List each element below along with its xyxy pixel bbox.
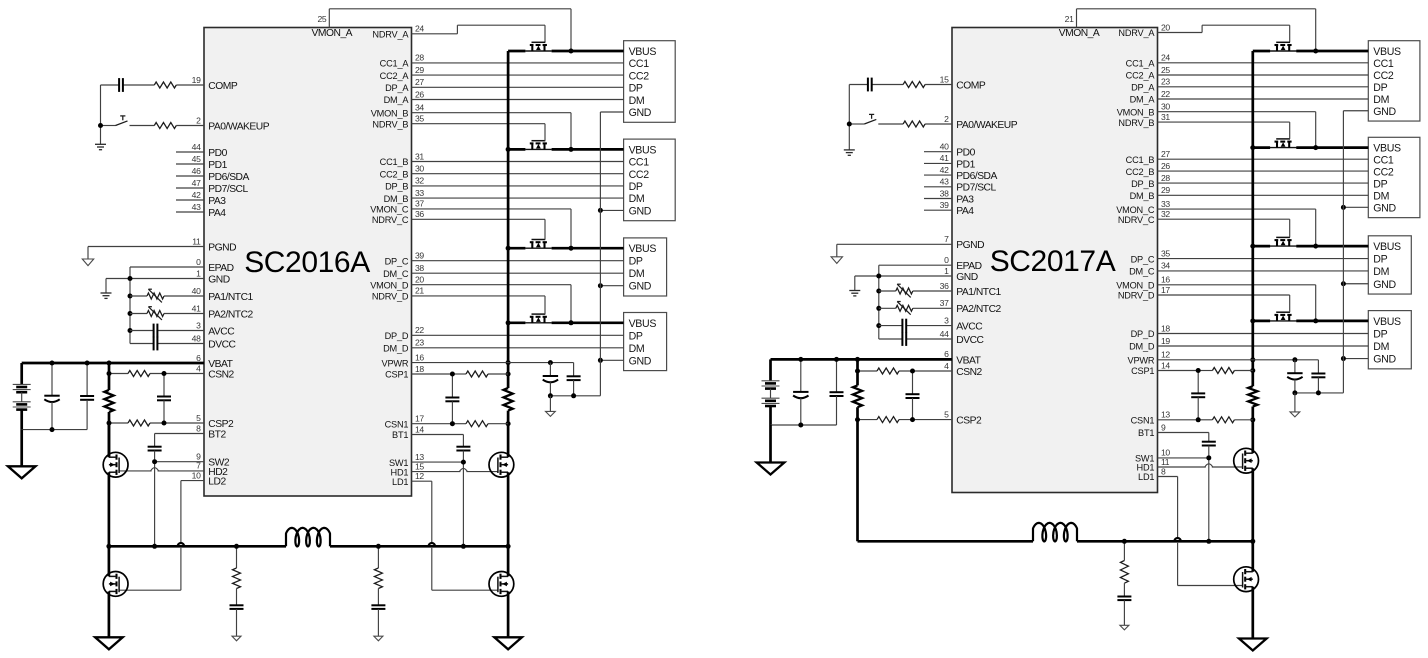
wire BT1 bootstrap net [1158, 433, 1209, 442]
wire VMON_D net [1158, 285, 1316, 321]
svg-text:DM_A: DM_A [384, 95, 410, 105]
svg-text:SC2016A: SC2016A [244, 246, 370, 279]
wire CSP2 filter net [109, 422, 204, 424]
svg-text:2: 2 [196, 115, 201, 125]
wire SW1 switch node [1158, 446, 1209, 542]
svg-text:DP_A: DP_A [385, 83, 409, 93]
svg-text:43: 43 [192, 202, 201, 212]
resistor R_comp [154, 82, 176, 88]
U2 pin 42 (PD6/SDA) [940, 165, 949, 175]
svg-text:23: 23 [415, 338, 424, 348]
capacitor C_cs2 [157, 374, 171, 424]
wire DP_D net [1158, 333, 1369, 335]
wire hop HD2 over SW2 [151, 468, 159, 471]
U2 pin 37 (PA2/NTC2) [940, 298, 949, 308]
U1 pin 1 (GND) [196, 268, 201, 278]
resistor R_csn2 [877, 368, 899, 374]
U2 pin 7 (PGND) [944, 234, 949, 244]
wire pin stub PD7/SCL [176, 187, 204, 189]
wire VMON_C net [412, 209, 572, 248]
svg-text:DM_B: DM_B [384, 194, 409, 204]
U2 pin 38 (PA3) [940, 188, 949, 198]
U1 pin 13 (SW1) [415, 452, 424, 462]
U2 pin 23 (DP_A) [1161, 77, 1170, 87]
svg-text:DM_D: DM_D [383, 344, 409, 354]
svg-text:CC2: CC2 [629, 70, 650, 82]
wire CSN2 filter net [858, 370, 953, 372]
capacitor C_dvcc [154, 337, 204, 351]
wire VMON_B net [412, 113, 572, 150]
svg-text:CSN2: CSN2 [956, 367, 982, 378]
svg-text:18: 18 [1161, 323, 1170, 333]
op-amp controller IC U1 SC2016A [204, 28, 412, 497]
capacitor C_snub1 [1117, 583, 1131, 625]
svg-text:BT1: BT1 [392, 430, 408, 440]
node junction GND bus port D [598, 358, 603, 363]
U1 pin 3 (AVCC) [196, 320, 201, 330]
capacitor C_bt2 [148, 447, 162, 451]
svg-text:DVCC: DVCC [956, 335, 984, 346]
U1 pin 29 (CC2_A) [415, 65, 424, 75]
svg-text:31: 31 [1161, 112, 1170, 122]
svg-text:VMON_D: VMON_D [370, 280, 409, 290]
wire BT1 bootstrap net [412, 435, 464, 447]
svg-text:35: 35 [415, 114, 424, 124]
svg-text:47: 47 [192, 178, 201, 188]
ground arrow symbol (snubber 1) [1120, 625, 1129, 630]
wire DP_A net [412, 86, 624, 88]
svg-text:DM: DM [629, 268, 645, 280]
svg-text:PGND: PGND [956, 240, 984, 251]
svg-text:CSN2: CSN2 [208, 369, 234, 380]
thermistor RT1 [130, 289, 204, 302]
U2 pin 13 (CSN1) [1161, 410, 1170, 420]
U2 pin 9 (BT1) [1161, 422, 1166, 432]
svg-text:20: 20 [415, 275, 424, 285]
svg-text:PA4: PA4 [208, 208, 226, 219]
svg-text:CC1_B: CC1_B [380, 157, 409, 167]
transistor Q_C (VBUS switch C) [1270, 237, 1297, 246]
svg-text:VBUS: VBUS [1373, 241, 1401, 253]
svg-text:CC2: CC2 [629, 169, 650, 181]
capacitor C_bat2 [830, 359, 844, 425]
svg-text:26: 26 [415, 89, 424, 99]
svg-text:PA2/NTC2: PA2/NTC2 [956, 304, 1001, 315]
svg-text:CSP2: CSP2 [956, 416, 982, 427]
svg-text:25: 25 [1161, 65, 1170, 75]
svg-text:VMON_B: VMON_B [371, 108, 409, 118]
node junction VMON_C on rail [569, 246, 574, 251]
wire DM_C net [412, 272, 624, 274]
svg-text:12: 12 [1161, 350, 1170, 360]
svg-text:GND: GND [1373, 354, 1396, 366]
svg-text:4: 4 [944, 361, 949, 371]
svg-text:CC2: CC2 [1373, 167, 1394, 179]
wire battery negative to ground [771, 406, 837, 463]
connector J_U1_C (USB port C) [624, 238, 667, 296]
wire pin stub PD1 [924, 162, 952, 164]
svg-text:DM_D: DM_D [1129, 342, 1155, 352]
U2 pin 5 (CSP2) [944, 409, 949, 419]
capacitor C_avcc [879, 319, 952, 333]
svg-text:16: 16 [1161, 275, 1170, 285]
svg-text:VMON_C: VMON_C [1116, 205, 1155, 215]
svg-text:42: 42 [192, 190, 201, 200]
svg-text:DM: DM [629, 343, 645, 355]
svg-text:6: 6 [944, 349, 949, 359]
svg-text:30: 30 [415, 164, 424, 174]
wire DP_B net [412, 185, 624, 187]
wire CC2_A net [1158, 74, 1369, 76]
capacitor C_avcc [130, 324, 204, 338]
svg-text:PA3: PA3 [956, 194, 974, 205]
node junction VMON_B on rail [569, 147, 574, 152]
svg-text:10: 10 [192, 470, 201, 480]
U2 pin 11 (HD1) [1161, 457, 1170, 467]
wire VBUS rail port B (thick) [508, 148, 623, 151]
wire pin stub PA4 [924, 209, 952, 211]
node junction VMON_C on rail [1313, 244, 1318, 249]
capacitor C_out1 (polarized) [543, 363, 558, 396]
svg-text:DM_C: DM_C [383, 269, 409, 279]
wire PA0/WAKEUP net [101, 126, 205, 145]
svg-text:28: 28 [415, 53, 424, 63]
node junction GND bus port B [598, 208, 603, 213]
wire VBAT net (thick) [22, 363, 204, 384]
svg-text:DP_B: DP_B [1131, 179, 1154, 189]
wire COMP net [849, 85, 952, 125]
U1 pin 23 (DM_D) [415, 338, 424, 348]
ground arrow symbol (output caps) [546, 411, 556, 416]
svg-text:GND: GND [629, 281, 652, 293]
ground arrow symbol (PGND) [831, 257, 842, 264]
svg-text:VMON_A: VMON_A [312, 28, 353, 39]
svg-text:HD1: HD1 [1137, 463, 1155, 473]
wire CSP2 filter net [858, 419, 953, 421]
svg-text:DP: DP [629, 83, 643, 95]
svg-text:26: 26 [1161, 161, 1170, 171]
svg-text:41: 41 [940, 153, 949, 163]
svg-text:39: 39 [415, 251, 424, 261]
wire GND port C [600, 285, 623, 287]
battery BT [13, 384, 31, 409]
U2 pin 30 (VMON_B) [1161, 102, 1170, 112]
U1 pin 16 (VPWR) [415, 352, 424, 362]
svg-text:3: 3 [196, 320, 201, 330]
transistor Q_D (VBUS switch D) [525, 314, 552, 323]
node junction GND bus port D [1341, 356, 1346, 361]
svg-text:22: 22 [415, 325, 424, 335]
svg-text:41: 41 [192, 303, 201, 313]
svg-text:CSP2: CSP2 [208, 419, 234, 430]
svg-text:COMP: COMP [956, 80, 986, 91]
svg-text:NDRV_B: NDRV_B [372, 119, 408, 129]
svg-text:CC1: CC1 [629, 157, 650, 169]
wire main VBUS vertical (thick) [1251, 51, 1254, 453]
resistor R_sense2 (power) [104, 390, 113, 412]
U2 pin 44 (DVCC) [940, 329, 949, 339]
wire pin stub PD7/SCL [924, 186, 952, 188]
wire LD2 gate drive [119, 481, 204, 591]
wire EPAD/GND/AVCC/DVCC common net [855, 265, 952, 339]
wire CSN2 filter net [109, 373, 204, 375]
wire VBUS rail port C (thick) [1253, 245, 1369, 248]
svg-text:PD6/SDA: PD6/SDA [956, 171, 997, 182]
svg-text:1: 1 [944, 266, 949, 276]
wire output cap ground stem [549, 396, 551, 412]
wire DP_C net [412, 260, 624, 262]
U1 pin 45 (PD1) [192, 154, 201, 164]
wire hop LD2 over switch rail [178, 543, 185, 546]
svg-text:46: 46 [192, 166, 201, 176]
wire DM_C net [1158, 270, 1369, 272]
U2 pin 20 (NDRV_A) [1161, 22, 1170, 32]
svg-text:LD1: LD1 [1138, 472, 1154, 482]
svg-text:NDRV_C: NDRV_C [1118, 215, 1155, 225]
U2 pin 41 (PD1) [940, 153, 949, 163]
svg-text:PA0/WAKEUP: PA0/WAKEUP [208, 121, 269, 132]
svg-text:VBAT: VBAT [208, 359, 233, 370]
U2 pin 3 (AVCC) [944, 315, 949, 325]
U2 pin 15 (COMP) [940, 74, 949, 84]
capacitor C_bat2 [80, 363, 94, 430]
svg-text:17: 17 [1161, 285, 1170, 295]
svg-text:PA1/NTC1: PA1/NTC1 [956, 287, 1001, 298]
U1 pin 33 (DM_B) [415, 188, 424, 198]
wire VMON_B net [1158, 112, 1316, 148]
node junctions SW2 [152, 459, 157, 549]
svg-text:17: 17 [415, 414, 424, 424]
svg-text:VBUS: VBUS [1373, 143, 1401, 155]
resistor R_wakeup [903, 121, 925, 127]
U2 pin 21 (VMON_A) [1065, 14, 1074, 24]
ground earth symbol (GND pin) [849, 291, 860, 296]
wire LD1 gate drive [412, 481, 498, 590]
wire GND port D [1343, 358, 1368, 360]
wire switch node to rail (thick) [1251, 468, 1254, 572]
node junction PA0 / ground [847, 122, 852, 127]
U2 pin 31 (NDRV_B) [1161, 112, 1170, 122]
svg-text:CC1: CC1 [629, 58, 650, 70]
wire DM_D net [412, 347, 624, 349]
node junctions output cap ground [1292, 390, 1321, 395]
U2 pin 26 (CC2_B) [1161, 161, 1170, 171]
U1 pin 12 (LD1) [415, 471, 424, 481]
resistor R_sense1 (power) [504, 388, 513, 411]
svg-text:12: 12 [415, 471, 424, 481]
U2 pin 1 (GND) [944, 266, 949, 276]
U1 pin 31 (CC1_B) [415, 151, 424, 161]
node junction rail/main vertical [1250, 539, 1255, 544]
U1 pin 10 (LD2) [192, 470, 201, 480]
transistor Q_A (VBUS switch A) [1270, 42, 1297, 51]
svg-text:VBUS: VBUS [629, 243, 657, 255]
transistor Q5 (phase2 low-side) [103, 572, 128, 597]
svg-text:PD1: PD1 [956, 159, 975, 170]
wire switch node to rail (thick) [507, 472, 510, 576]
svg-text:VBUS: VBUS [1373, 316, 1401, 328]
svg-text:VMON_A: VMON_A [1059, 28, 1100, 39]
svg-text:DP_C: DP_C [1131, 254, 1155, 264]
U1 pin 18 (CSP1) [415, 364, 424, 374]
svg-text:33: 33 [415, 188, 424, 198]
svg-text:VBUS: VBUS [629, 144, 657, 156]
U1 pin 39 (DP_C) [415, 251, 424, 261]
U1 pin 30 (CC2_B) [415, 164, 424, 174]
wire VBUS rail port D (thick) [508, 321, 623, 324]
transistor Q4 (phase2 high-side sync) [103, 452, 128, 477]
battery BT [762, 381, 780, 406]
wire VBUS rail port D (thick) [1253, 320, 1369, 323]
node junction VMON_D on rail [1313, 318, 1318, 323]
node junctions CS2 filter [107, 371, 167, 426]
svg-text:CSP1: CSP1 [385, 370, 408, 380]
resistor R_snub1 [233, 546, 241, 588]
svg-text:43: 43 [940, 177, 949, 187]
U1 pin 8 (BT2) [196, 423, 201, 433]
capacitor C_comp [868, 78, 872, 92]
wire hop HD1 over SW1 [1205, 464, 1213, 467]
svg-text:PGND: PGND [208, 242, 236, 253]
wire main VBUS vertical (thick) [507, 51, 510, 457]
node junctions SW1 [1206, 455, 1211, 543]
transistor Q_D (VBUS switch D) [1270, 312, 1297, 321]
ground arrow symbol (output caps) [1290, 412, 1300, 417]
wire NDRV_C net [1158, 219, 1290, 237]
U1 pin 14 (BT1) [415, 424, 424, 434]
wire NDRV_C net [412, 219, 546, 239]
capacitor C_dvcc [902, 332, 952, 346]
svg-text:CC1_A: CC1_A [380, 59, 410, 69]
wire NDRV_D net [412, 296, 546, 314]
svg-text:DM: DM [629, 193, 645, 205]
ground earth symbol (wakeup) [844, 150, 855, 155]
svg-text:3: 3 [944, 315, 949, 325]
wire PGND net [88, 247, 204, 260]
switch S_wakeup [116, 116, 128, 126]
node junctions SW1 [461, 460, 466, 549]
node junction GND bus port C [1341, 281, 1346, 286]
U2 pin 34 (DM_C) [1161, 261, 1170, 271]
svg-text:PD0: PD0 [956, 148, 975, 159]
U2 pin 2 (PA0/WAKEUP) [944, 114, 949, 124]
wire PGND net [837, 244, 952, 256]
thermistor RT1 [879, 284, 952, 297]
U1 pin 44 (PD0) [192, 142, 201, 152]
wire VPWR net [412, 363, 574, 377]
capacitor C_cs2 [906, 371, 920, 420]
wire HD1 gate drive [1158, 466, 1243, 468]
thermistor RT2 [879, 302, 952, 315]
capacitor C_comp [119, 78, 123, 92]
U2 pin 28 (DP_B) [1161, 173, 1170, 183]
U1 pin 0 (EPAD) [196, 257, 201, 267]
transistor Q_B (VBUS switch B) [525, 141, 552, 150]
wire GND bus vertical [1295, 111, 1344, 393]
svg-text:27: 27 [1161, 149, 1170, 159]
svg-text:32: 32 [1161, 209, 1170, 219]
node junction VMON_A on rail [569, 49, 574, 54]
capacitor C_bat1 (polarized) [44, 363, 59, 430]
svg-text:38: 38 [940, 188, 949, 198]
svg-text:DP: DP [1373, 328, 1387, 340]
svg-text:15: 15 [415, 461, 424, 471]
node junction VMON_A on rail [1313, 49, 1318, 54]
ground power triangle (battery) [757, 463, 785, 475]
capacitor C_bt1 [456, 447, 470, 451]
transistor Q1 (high-side sync) [1234, 448, 1259, 473]
wire CC1_A net [412, 62, 624, 64]
node junctions main VBUS vertical [1250, 145, 1255, 422]
svg-text:0: 0 [196, 257, 201, 267]
svg-text:CSP1: CSP1 [1131, 366, 1154, 376]
svg-text:SW1: SW1 [389, 458, 408, 468]
U1 pin 43 (PA4) [192, 202, 201, 212]
svg-text:CC1: CC1 [1373, 58, 1394, 70]
wire low-side source to ground (thick) [507, 591, 510, 637]
svg-text:PD7/SCL: PD7/SCL [956, 183, 996, 194]
svg-text:8: 8 [196, 423, 201, 433]
node junction GND bus port C [598, 283, 603, 288]
U2 pin 0 (EPAD) [944, 255, 949, 265]
wire pin stub PA3 [176, 199, 204, 201]
resistor R_csn1 [466, 421, 488, 427]
svg-text:CSN1: CSN1 [385, 419, 409, 429]
wire LD1 gate drive [1158, 477, 1243, 586]
svg-text:AVCC: AVCC [956, 322, 983, 333]
svg-text:7: 7 [944, 234, 949, 244]
U1 pin 41 (PA2/NTC2) [192, 303, 201, 313]
svg-text:40: 40 [192, 286, 201, 296]
resistor R_csn1 [1212, 417, 1234, 423]
svg-text:DP_C: DP_C [385, 256, 409, 266]
node junctions CS1 filter [450, 372, 455, 427]
node junction snubber 2 [376, 544, 381, 549]
U2 pin 18 (DP_D) [1161, 323, 1170, 333]
node junction rail/main vertical [506, 544, 511, 549]
svg-text:38: 38 [415, 263, 424, 273]
wire CC1_A net [1158, 62, 1369, 64]
svg-text:36: 36 [940, 281, 949, 291]
resistor R_csp2 [128, 420, 150, 426]
transistor Q2 (low-side) [489, 572, 514, 597]
node junction snubber 1 [234, 544, 239, 549]
wire pin stub PD6/SDA [924, 174, 952, 176]
ground power triangle (low-side FET) [494, 637, 522, 649]
wire GND port C [1343, 283, 1368, 285]
wire VBAT net (thick) [771, 359, 953, 380]
node junctions on EPAD bus [128, 276, 133, 333]
wire VBUS rail port A (thick) [1253, 50, 1369, 53]
wire CC1_B net [1158, 158, 1369, 160]
U1 pin 28 (CC1_A) [415, 53, 424, 63]
connector J_U1_A (USB port A) [624, 41, 676, 123]
wire low-side source to ground (thick) [1251, 587, 1254, 639]
U1 pin 46 (PD6/SDA) [192, 166, 201, 176]
U2 pin 19 (DM_D) [1161, 336, 1170, 346]
svg-text:DP_A: DP_A [1131, 83, 1155, 93]
transistor Q_A (VBUS switch A) [525, 42, 552, 51]
U1 pin 36 (NDRV_C) [415, 209, 424, 219]
svg-text:44: 44 [940, 329, 949, 339]
svg-text:PD7/SCL: PD7/SCL [208, 184, 248, 195]
U2 pin 6 (VBAT) [944, 349, 949, 359]
svg-text:1: 1 [196, 268, 201, 278]
svg-text:AVCC: AVCC [208, 326, 235, 337]
node junction GND bus port B [1341, 205, 1346, 210]
wire VBUS rail port A (thick) [508, 50, 623, 53]
svg-text:GND: GND [1373, 106, 1396, 118]
